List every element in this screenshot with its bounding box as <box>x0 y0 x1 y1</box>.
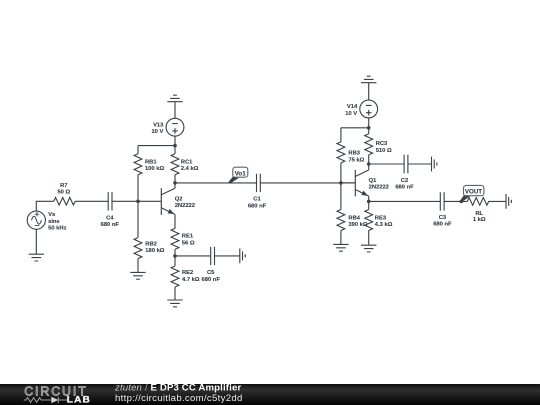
resistor RB3 75k <box>337 128 345 183</box>
svg-text:680 nF: 680 nF <box>101 222 120 228</box>
svg-text:2N2222: 2N2222 <box>175 203 195 209</box>
resistor RC1 2.4k <box>171 146 179 183</box>
svg-text:Vs: Vs <box>48 212 55 218</box>
resistor RB4 390k <box>337 183 345 245</box>
capacitor C1 <box>257 174 261 192</box>
wire supply node to RB3 column <box>341 127 369 129</box>
capacitor C3 <box>440 192 444 210</box>
svg-text:C2: C2 <box>401 178 408 184</box>
resistor RC3 510ohm <box>365 128 373 164</box>
wire RL to ground <box>489 200 507 202</box>
svg-text:RC3: RC3 <box>376 141 388 147</box>
svg-text:C5: C5 <box>207 270 215 276</box>
voltage source V14 <box>360 100 378 118</box>
svg-text:510 Ω: 510 Ω <box>376 148 392 154</box>
resistor RB2 180k <box>134 201 142 272</box>
node VOUT <box>460 200 464 204</box>
ground (below RE2) <box>167 300 182 307</box>
wire collector Q2 to C1 <box>175 182 257 184</box>
wire V14 to supply node <box>368 118 370 128</box>
svg-text:RE1: RE1 <box>182 234 194 240</box>
flag Vo1 <box>228 167 247 184</box>
resistor RE1 56ohm <box>171 228 179 256</box>
wire Q1 collector node to C2 <box>369 163 404 165</box>
svg-text:4.7 kΩ: 4.7 kΩ <box>182 277 200 283</box>
svg-text:50 kHz: 50 kHz <box>48 226 66 232</box>
svg-text:Vo1: Vo1 <box>235 170 246 177</box>
wire V13 to supply node <box>174 136 176 146</box>
node emitter2 <box>367 200 371 204</box>
svg-text:390 kΩ: 390 kΩ <box>348 222 368 228</box>
svg-text:V13: V13 <box>153 122 164 128</box>
svg-text:R7: R7 <box>60 183 67 189</box>
wire emitter node to C5 <box>175 255 211 257</box>
footer bar <box>0 384 540 405</box>
svg-text:C4: C4 <box>106 215 114 221</box>
svg-text:2.4 kΩ: 2.4 kΩ <box>181 166 199 172</box>
voltage source V13 <box>166 118 184 136</box>
svg-text:2N2222: 2N2222 <box>369 185 389 191</box>
wire C4 to base node to Q2 base <box>112 200 161 202</box>
svg-text:180 kΩ: 180 kΩ <box>145 248 165 254</box>
junction dots <box>136 126 463 258</box>
svg-text:680 nF: 680 nF <box>395 185 414 191</box>
svg-text:RE3: RE3 <box>375 215 387 221</box>
wire Q1 base <box>341 182 355 184</box>
svg-text:RE2: RE2 <box>182 270 193 276</box>
transistor Q2 2N2222 <box>161 183 175 229</box>
wire Vs to ground <box>35 229 37 254</box>
wire C5 to ground <box>215 255 240 257</box>
ground (below RE3) <box>361 245 376 252</box>
node base1 <box>136 200 140 204</box>
node supply2 <box>367 126 371 130</box>
svg-text:VOUT: VOUT <box>465 189 482 196</box>
ground (top of V14) <box>361 76 376 100</box>
svg-text:RL: RL <box>475 211 483 217</box>
svg-text:4.3 kΩ: 4.3 kΩ <box>375 222 393 228</box>
node collector1 / Vo1 <box>173 181 177 185</box>
ground (below RB4) <box>333 244 348 251</box>
flag VOUT <box>460 185 484 202</box>
transistor Q1 2N2222 <box>355 164 368 201</box>
node base2 <box>339 181 343 185</box>
svg-text:680 nF: 680 nF <box>433 222 452 228</box>
wire Q1 emitter node to C3 <box>369 200 441 202</box>
svg-text:680 nF: 680 nF <box>202 277 221 283</box>
wire R7 to C4 <box>75 200 108 202</box>
capacitor C2 <box>404 155 408 173</box>
svg-text:Q1: Q1 <box>369 178 378 184</box>
svg-text:100 kΩ: 100 kΩ <box>145 166 165 172</box>
ground (below Vs) <box>29 254 44 261</box>
logo diode triangle <box>51 397 58 404</box>
logo resistor-diode glyph <box>24 397 67 404</box>
svg-text:RB1: RB1 <box>145 159 157 165</box>
svg-text:C1: C1 <box>253 197 261 203</box>
capacitor C4 <box>108 192 112 210</box>
resistor RL 1k <box>467 198 488 206</box>
ground (right of C2) <box>432 157 437 172</box>
svg-text:RB3: RB3 <box>348 151 360 157</box>
svg-text:RB2: RB2 <box>145 241 157 247</box>
node collector2 <box>367 162 371 166</box>
svg-text:10 V: 10 V <box>345 111 357 117</box>
resistor RE2 4.7k <box>171 256 179 300</box>
resistor R7 50ohm <box>54 198 75 206</box>
svg-text:10 V: 10 V <box>151 129 163 135</box>
capacitor C5 <box>211 247 215 265</box>
wire C2 to ground <box>408 163 432 165</box>
wire supply node to RB1 column <box>138 145 175 147</box>
wire Vs to R7 <box>36 201 54 211</box>
svg-text:56 Ω: 56 Ω <box>182 240 195 246</box>
ground (right of RL) <box>506 194 511 209</box>
resistor RE3 4.3k <box>365 201 373 245</box>
node supply1 <box>173 144 177 148</box>
ground (right of C5) <box>240 249 245 264</box>
wire C3 to RL <box>444 200 467 202</box>
node emitter1 <box>173 254 177 258</box>
svg-text:50 Ω: 50 Ω <box>57 190 70 196</box>
svg-text:http://circuitlab.com/c5ty2dd: http://circuitlab.com/c5ty2dd <box>115 393 243 404</box>
svg-text:1 kΩ: 1 kΩ <box>473 217 486 223</box>
sine source Vs <box>27 211 45 229</box>
svg-text:680 nF: 680 nF <box>248 203 267 209</box>
ground (top of V13) <box>167 95 182 118</box>
svg-text:LAB: LAB <box>67 395 91 405</box>
resistor RB1 100k <box>134 146 142 202</box>
svg-text:C3: C3 <box>439 215 447 221</box>
svg-text:RB4: RB4 <box>348 215 360 221</box>
svg-text:Q2: Q2 <box>175 196 183 202</box>
svg-text:75 kΩ: 75 kΩ <box>348 157 364 163</box>
svg-text:RC1: RC1 <box>181 159 193 165</box>
svg-text:sine: sine <box>48 219 60 225</box>
ground (below RB2) <box>130 272 145 279</box>
svg-text:V14: V14 <box>347 104 358 110</box>
wire C1 to Q1 base <box>260 182 355 184</box>
